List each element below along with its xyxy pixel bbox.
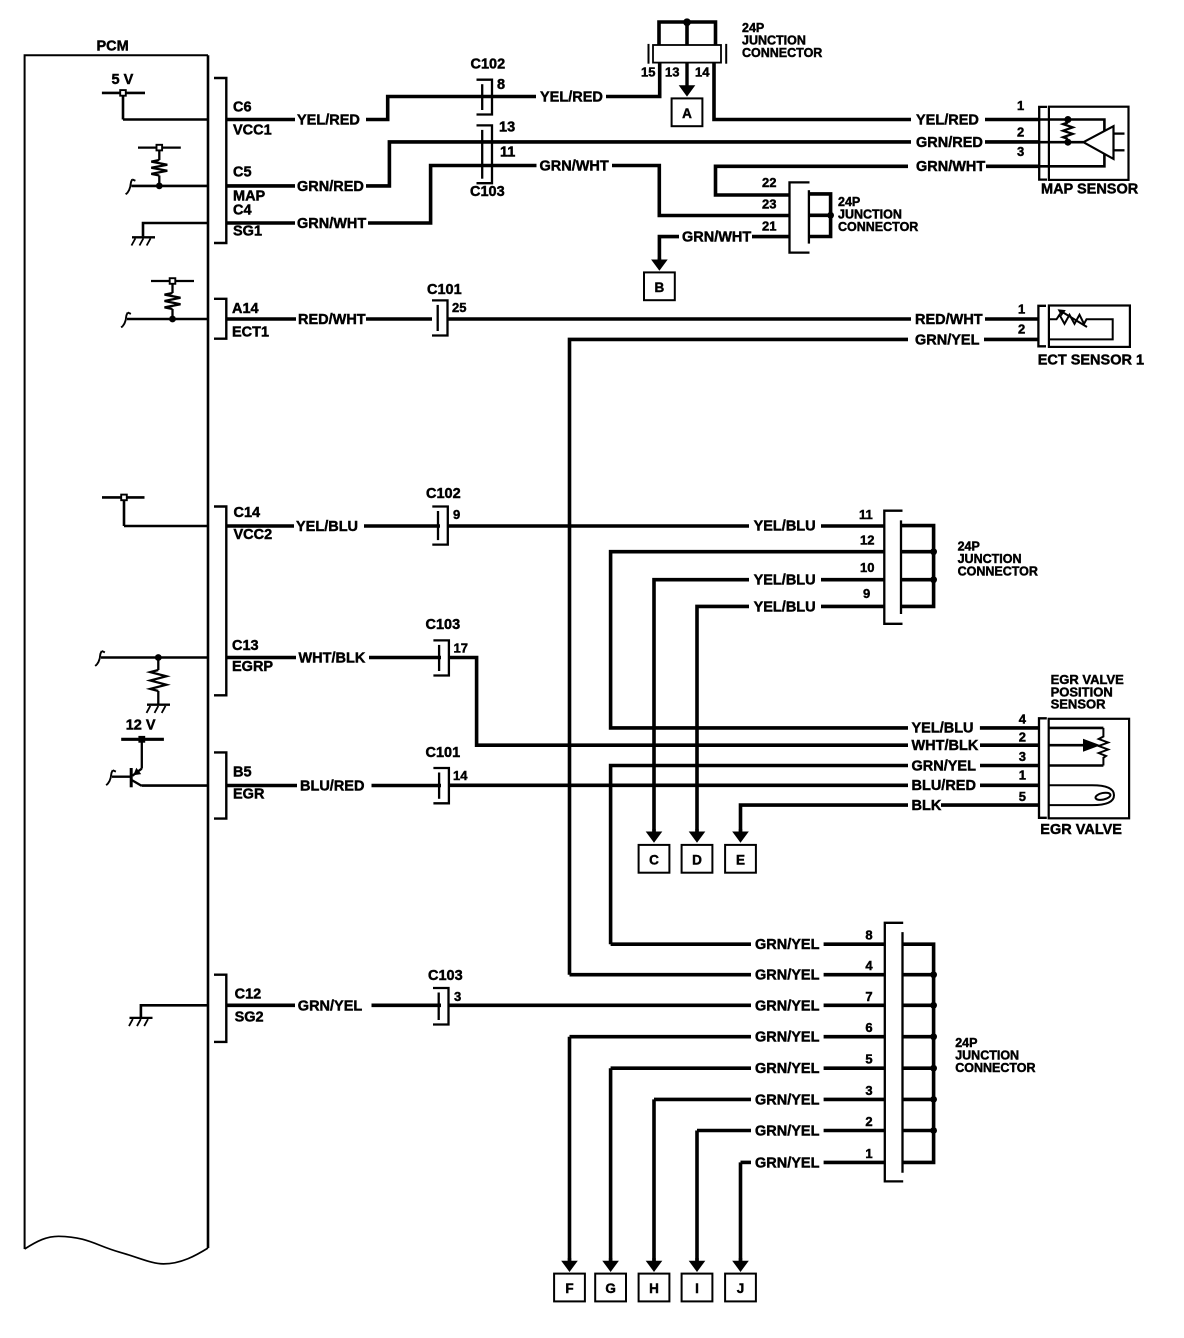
EGR valve box <box>1049 719 1129 819</box>
wire down to node I <box>695 1131 699 1262</box>
wire GRN/YEL junction pin 4 <box>570 973 752 977</box>
ground (SG2) <box>129 1018 153 1026</box>
svg-text:GRN/YEL: GRN/YEL <box>912 759 977 775</box>
svg-text:C12: C12 <box>235 987 262 1003</box>
arrow to node E <box>739 829 742 834</box>
wire down to node H <box>652 1099 656 1261</box>
MAP internal resistor <box>1063 123 1073 139</box>
svg-text:1: 1 <box>865 1146 872 1161</box>
svg-text:GRN/YEL: GRN/YEL <box>755 1030 820 1046</box>
svg-text:GRN/YEL: GRN/YEL <box>755 1061 820 1077</box>
wire B5 BLU/RED <box>227 784 297 788</box>
svg-text:3: 3 <box>1017 144 1024 159</box>
MAP internal wiring <box>1039 120 1104 167</box>
svg-text:GRN/YEL: GRN/YEL <box>755 1155 820 1171</box>
pull-down resistor (EGRP) <box>150 658 166 704</box>
pin bracket C12 <box>214 975 226 1042</box>
svg-text:GRN/YEL: GRN/YEL <box>755 1124 820 1140</box>
svg-text:E: E <box>736 852 745 867</box>
wire C103 pin 17 to EGR valve position sensor pin 2 <box>449 658 908 746</box>
svg-text:23: 23 <box>762 197 776 212</box>
svg-text:GRN/YEL: GRN/YEL <box>298 999 363 1015</box>
svg-text:C102: C102 <box>426 486 461 502</box>
svg-text:GRN/WHT: GRN/WHT <box>916 159 985 175</box>
arrow to node A <box>685 63 688 88</box>
svg-text:4: 4 <box>1019 712 1027 727</box>
svg-text:SG1: SG1 <box>233 224 262 240</box>
junction dot on ECT1 wire <box>169 316 176 323</box>
svg-text:YEL/BLU: YEL/BLU <box>754 573 816 589</box>
svg-text:GRN/YEL: GRN/YEL <box>755 937 820 953</box>
svg-text:3: 3 <box>1019 749 1026 764</box>
connector C103 pin 3 <box>433 988 449 1025</box>
svg-text:BLK: BLK <box>912 798 942 814</box>
node I <box>682 1274 713 1302</box>
svg-text:YEL/BLU: YEL/BLU <box>754 519 816 535</box>
svg-text:MAP SENSOR: MAP SENSOR <box>1041 182 1139 198</box>
EGR position sensor potentiometer <box>1049 728 1108 766</box>
svg-text:YEL/RED: YEL/RED <box>540 90 603 106</box>
wire junction pin 22 to MAP sensor pin 3 <box>716 166 909 195</box>
svg-text:GRN/YEL: GRN/YEL <box>755 998 820 1014</box>
wire EGR valve pin 5 BLK to node E <box>941 803 1040 807</box>
svg-text:D: D <box>692 852 702 867</box>
svg-text:CONNECTOR: CONNECTOR <box>958 565 1038 579</box>
junction dot <box>683 18 691 26</box>
svg-text:11: 11 <box>859 507 873 522</box>
wire off-page marker to pin C5 <box>126 179 136 194</box>
svg-text:2: 2 <box>1017 125 1024 140</box>
svg-text:C102: C102 <box>471 57 506 73</box>
svg-text:BLU/RED: BLU/RED <box>300 779 364 795</box>
svg-text:GRN/RED: GRN/RED <box>916 135 983 151</box>
node B <box>644 272 675 300</box>
wire GRN/YEL junction pin 5 <box>611 1066 751 1070</box>
svg-text:5 V: 5 V <box>112 72 134 88</box>
svg-text:EGR: EGR <box>233 787 265 803</box>
svg-text:YEL/BLU: YEL/BLU <box>296 519 358 535</box>
EGR valve solenoid coil <box>1049 785 1114 805</box>
wire 5V to pin C6 <box>123 118 208 121</box>
svg-text:B5: B5 <box>233 765 252 781</box>
arrow to node F <box>568 1258 571 1263</box>
pin bracket C6/C5/C4 <box>214 78 226 243</box>
svg-text:12 V: 12 V <box>126 718 156 734</box>
svg-text:6: 6 <box>865 1020 872 1035</box>
svg-text:17: 17 <box>454 641 468 656</box>
node J <box>725 1274 756 1302</box>
wire C4 GRN/WHT <box>227 221 295 225</box>
svg-text:2: 2 <box>1019 730 1026 745</box>
svg-text:9: 9 <box>453 507 460 522</box>
svg-text:GRN/WHT: GRN/WHT <box>540 159 609 175</box>
wire transistor to pin B5 <box>142 784 209 787</box>
wire A14 RED/WHT <box>227 317 296 321</box>
pin bracket A14 <box>214 299 226 339</box>
pull-up resistor (ECT1 input) <box>151 278 194 319</box>
svg-text:A: A <box>682 106 692 121</box>
ECT sensor box <box>1049 306 1130 347</box>
MAP sensor connector bracket <box>1039 107 1047 180</box>
svg-text:J: J <box>737 1281 745 1296</box>
24P junction connector (third) bar <box>884 511 902 624</box>
svg-text:WHT/BLK: WHT/BLK <box>299 651 366 667</box>
svg-text:B: B <box>655 280 665 295</box>
svg-text:SENSOR: SENSOR <box>1051 697 1107 712</box>
arrow to node H <box>652 1258 655 1263</box>
svg-text:13: 13 <box>665 65 679 80</box>
svg-text:21: 21 <box>762 219 776 234</box>
node D <box>682 845 713 873</box>
wire down to node J <box>739 1162 743 1261</box>
svg-text:C6: C6 <box>233 100 252 116</box>
svg-text:C5: C5 <box>233 165 252 181</box>
5V supply rail (VCC1) <box>102 72 145 120</box>
wire C13 WHT/BLK <box>227 656 296 660</box>
svg-text:1: 1 <box>1018 302 1025 317</box>
junction dot on MAP wire <box>156 183 163 190</box>
arrow to node D <box>695 829 698 834</box>
wire to junction connector pin 23 <box>612 166 790 216</box>
wire pin 13 stub <box>685 22 689 45</box>
svg-text:F: F <box>565 1281 573 1296</box>
wire pin 12 down to EGR valve position sensor pin 4 <box>611 552 908 728</box>
svg-text:C: C <box>649 852 659 867</box>
svg-text:GRN/WHT: GRN/WHT <box>682 230 751 246</box>
svg-text:VCC1: VCC1 <box>233 123 272 139</box>
svg-text:22: 22 <box>762 175 776 190</box>
wire GRN/YEL junction pin 8 <box>611 942 751 946</box>
wire GRN/RED to C103 pin 13 and MAP sensor <box>366 142 911 186</box>
junction busbar right of connector <box>903 944 934 1162</box>
svg-text:14: 14 <box>453 768 468 783</box>
junction busbar right of connector <box>809 194 831 237</box>
wire C6 YEL/RED to C102 <box>227 118 295 122</box>
svg-text:2: 2 <box>1018 322 1025 337</box>
wire C103 pin 3 to junction pin 7 <box>449 1003 752 1007</box>
svg-text:G: G <box>605 1281 616 1296</box>
svg-text:4: 4 <box>865 958 873 973</box>
svg-text:3: 3 <box>454 989 461 1004</box>
24P junction connector (bottom) bar <box>885 923 903 1182</box>
EGR sensor connector bracket <box>1039 718 1047 818</box>
svg-text:1: 1 <box>1019 768 1026 783</box>
connector C103 pin 13 / pin 11 <box>477 125 493 183</box>
wire pin 21 GRN/WHT to node B <box>752 235 790 239</box>
wire junction pin 14 to MAP sensor pin 1 <box>714 63 911 120</box>
svg-text:C101: C101 <box>426 745 461 761</box>
svg-text:ECT SENSOR 1: ECT SENSOR 1 <box>1038 353 1144 369</box>
connector C101 pin 14 <box>433 768 449 803</box>
node C <box>639 845 670 873</box>
wire pin C4 to ground <box>143 223 208 236</box>
MAP amplifier triangle <box>1083 126 1113 159</box>
svg-text:ECT1: ECT1 <box>232 325 269 341</box>
wire C14 YEL/BLU <box>227 524 294 528</box>
svg-text:YEL/RED: YEL/RED <box>297 113 360 129</box>
wire GRN/YEL junction pin 3 <box>654 1098 751 1102</box>
ECT sensor connector bracket <box>1038 306 1046 347</box>
connector C102 pin 8 <box>477 80 493 115</box>
arrow to node I <box>695 1258 698 1263</box>
wire pin 10 to node C <box>821 578 884 582</box>
ground (EGRP) <box>147 705 171 713</box>
svg-text:A14: A14 <box>232 301 259 317</box>
wire pin C12 to ground <box>141 1005 208 1017</box>
node F <box>554 1274 585 1302</box>
junction dot on EGRP wire <box>155 654 162 661</box>
12V supply rail <box>121 718 164 743</box>
wire C102 to junction pin 11 <box>448 524 749 528</box>
pin bracket C14/C13 <box>214 507 226 696</box>
svg-text:11: 11 <box>500 145 515 161</box>
svg-text:RED/WHT: RED/WHT <box>915 312 983 328</box>
svg-text:SG2: SG2 <box>235 1010 264 1026</box>
PCM box (ECM/PCM outline with torn wavy bottom) <box>25 39 208 1264</box>
svg-text:BLU/RED: BLU/RED <box>912 778 976 794</box>
svg-text:EGRP: EGRP <box>232 659 273 675</box>
wire pin 9 to node D <box>821 605 884 609</box>
svg-text:YEL/RED: YEL/RED <box>916 113 979 129</box>
wire 5V to pin C14 <box>124 525 208 528</box>
svg-text:C14: C14 <box>234 505 261 521</box>
svg-text:GRN/YEL: GRN/YEL <box>755 968 820 984</box>
wire C12 GRN/YEL <box>227 1003 295 1007</box>
svg-text:EGR VALVE: EGR VALVE <box>1040 822 1122 838</box>
svg-text:12: 12 <box>860 533 874 548</box>
svg-text:5: 5 <box>865 1052 872 1067</box>
svg-text:YEL/BLU: YEL/BLU <box>754 600 816 616</box>
pull-up resistor (MAP input) <box>138 145 181 186</box>
arrow to node G <box>609 1258 612 1263</box>
ECT thermistor <box>1049 309 1113 339</box>
wire EGR valve position sensor pin 3 GRN/YEL down to junction pin 8 <box>611 766 908 945</box>
wire ECT sensor pin 2 GRN/YEL (down to junction pin 4) <box>984 338 1039 342</box>
bus loop above junction connector <box>659 22 716 45</box>
wire GRN/YEL junction pin 6 <box>570 1035 752 1039</box>
svg-text:2: 2 <box>865 1114 872 1129</box>
wire C101 to ECT sensor pin 1 <box>448 317 912 321</box>
wire to junction connector pin 15 <box>606 63 660 97</box>
wire off-page marker to pin C13 <box>95 651 105 666</box>
svg-text:GRN/WHT: GRN/WHT <box>297 216 366 232</box>
svg-text:10: 10 <box>860 560 874 575</box>
arrow to node B <box>658 258 661 262</box>
svg-text:I: I <box>695 1281 699 1296</box>
svg-text:9: 9 <box>863 586 870 601</box>
wire C5 GRN/RED <box>227 184 295 188</box>
wire off-page marker to pin A14 <box>121 313 131 328</box>
svg-text:H: H <box>649 1281 659 1296</box>
svg-text:C101: C101 <box>427 282 462 298</box>
svg-text:C13: C13 <box>232 638 259 654</box>
node E <box>725 845 756 873</box>
svg-text:CONNECTOR: CONNECTOR <box>742 46 822 60</box>
junction busbar right of connector <box>901 526 934 607</box>
24P junction connector (second) bar <box>790 182 810 252</box>
node G <box>595 1274 626 1302</box>
arrow to node J <box>739 1258 742 1263</box>
svg-text:YEL/BLU: YEL/BLU <box>912 721 974 737</box>
node A <box>672 98 703 126</box>
svg-text:8: 8 <box>497 77 505 93</box>
wire down to node G <box>609 1068 613 1261</box>
MAP sensor box <box>1049 107 1129 180</box>
svg-text:CONNECTOR: CONNECTOR <box>838 220 918 234</box>
arrow to node C <box>652 829 655 834</box>
svg-text:C103: C103 <box>428 968 463 984</box>
wire GRN/YEL junction pin 2 <box>697 1129 751 1133</box>
svg-text:GRN/YEL: GRN/YEL <box>755 1092 820 1108</box>
svg-text:CONNECTOR: CONNECTOR <box>955 1061 1035 1075</box>
svg-text:15: 15 <box>641 65 655 80</box>
svg-text:13: 13 <box>499 120 515 136</box>
svg-text:GRN/RED: GRN/RED <box>297 179 364 195</box>
svg-text:RED/WHT: RED/WHT <box>298 312 366 328</box>
svg-text:8: 8 <box>865 928 872 943</box>
svg-text:PCM: PCM <box>97 39 129 55</box>
svg-text:WHT/BLK: WHT/BLK <box>912 738 979 754</box>
svg-text:C4: C4 <box>233 203 252 219</box>
connector C103 pin 17 <box>433 640 449 675</box>
svg-text:C103: C103 <box>426 617 461 633</box>
connector C101 pin 25 <box>432 300 448 335</box>
svg-text:25: 25 <box>452 300 466 315</box>
wire C101 pin 14 to EGR valve pin 1 <box>449 783 908 787</box>
svg-text:14: 14 <box>695 65 710 80</box>
node H <box>639 1274 670 1302</box>
wire GRN/YEL junction pin 1 <box>741 1161 752 1165</box>
svg-text:5: 5 <box>1019 789 1026 804</box>
svg-text:GRN/YEL: GRN/YEL <box>915 333 980 349</box>
wire down to node F <box>568 1037 572 1262</box>
5V supply rail (VCC2) <box>102 495 145 526</box>
svg-text:1: 1 <box>1017 98 1024 113</box>
24P junction connector (top) bar <box>649 44 727 64</box>
transistor Q (EGR driver, PNP) <box>131 739 142 787</box>
svg-text:7: 7 <box>865 989 872 1004</box>
connector C102 pin 9 <box>432 507 448 545</box>
svg-text:C103: C103 <box>470 184 505 200</box>
base input off-page marker <box>106 770 116 785</box>
svg-text:VCC2: VCC2 <box>234 527 273 543</box>
pin bracket B5 <box>214 752 226 818</box>
svg-text:3: 3 <box>865 1083 872 1098</box>
ground G101 (SG1) <box>132 237 156 245</box>
